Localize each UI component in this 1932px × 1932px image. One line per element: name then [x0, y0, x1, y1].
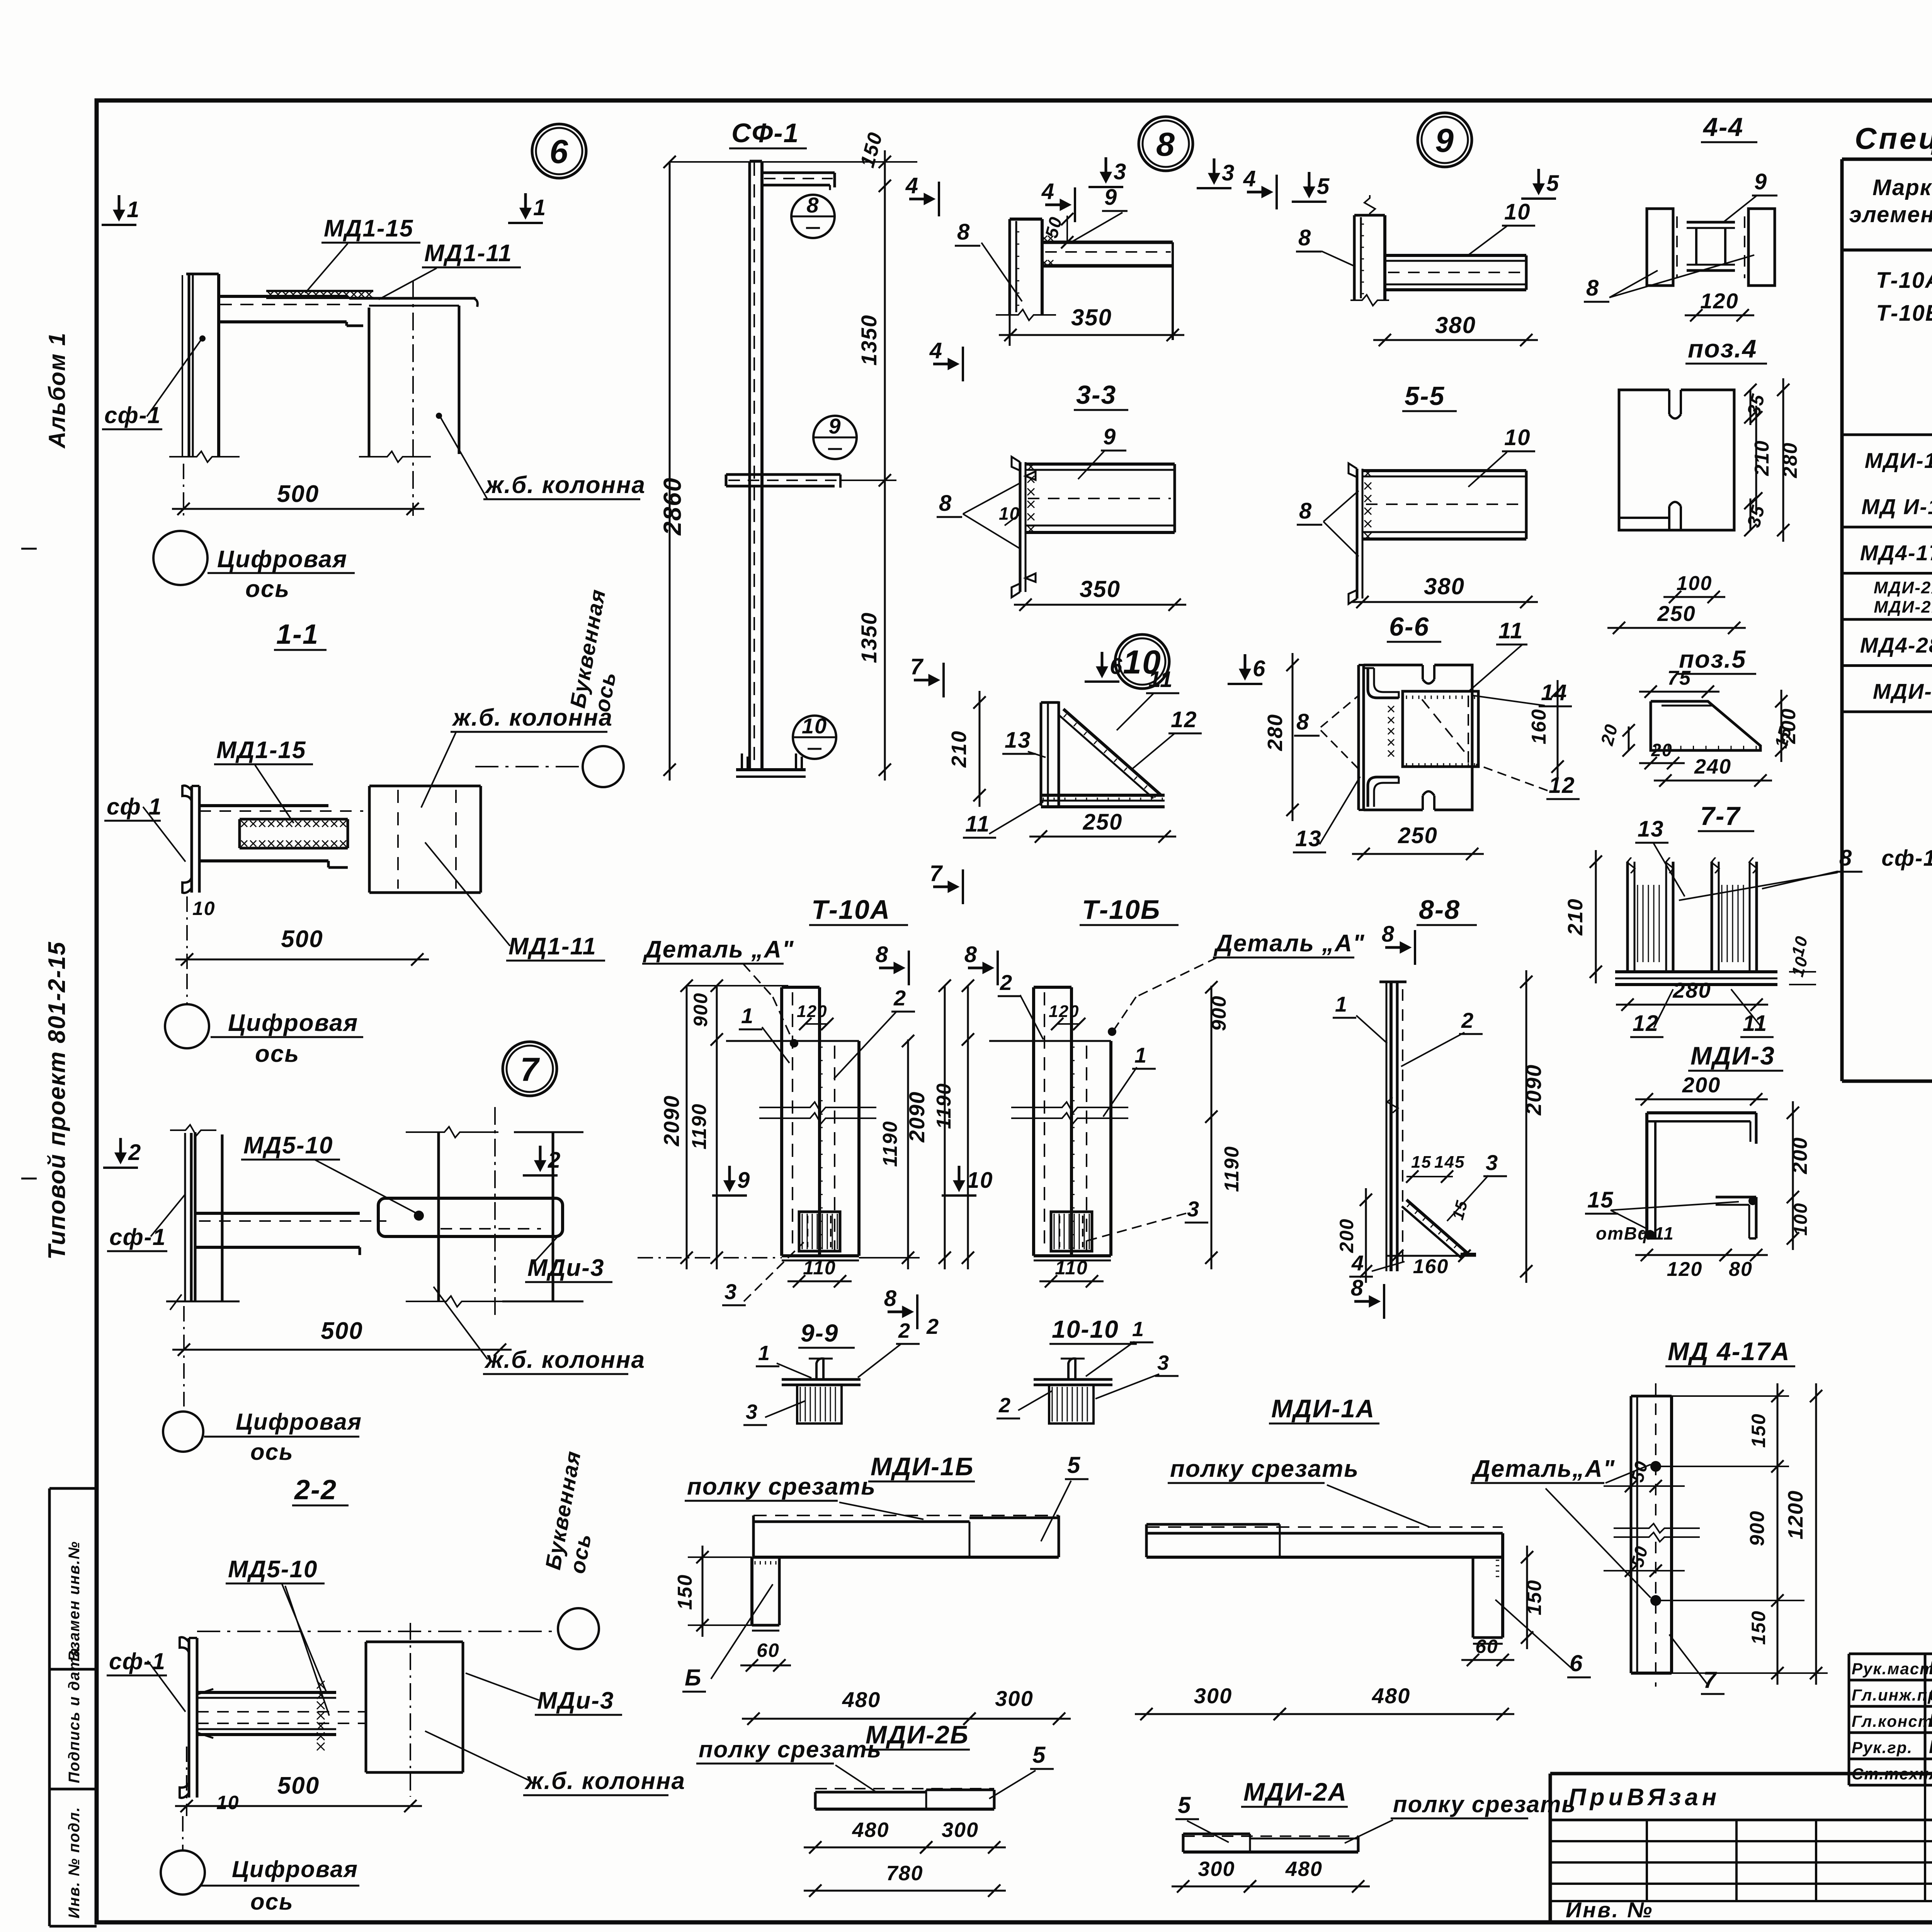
T-10B: dim 110: [1039, 1281, 1104, 1282]
6-6: top angle 8: [1368, 668, 1399, 698]
node 7: SF-1 wall: [184, 1133, 186, 1301]
svg-text:60: 60: [1475, 1636, 1498, 1657]
svg-text:ось: ось: [245, 576, 290, 602]
svg-text:3-3: 3-3: [1076, 380, 1116, 410]
svg-text:120: 120: [797, 1002, 827, 1021]
svg-text:3: 3: [1187, 1197, 1200, 1221]
svg-text:150: 150: [1748, 1610, 1769, 1645]
7-7: base plate: [1615, 970, 1777, 973]
svg-text:2: 2: [1000, 970, 1013, 995]
6-6: dims: [1292, 653, 1294, 821]
svg-text:сф-1: сф-1: [109, 1648, 166, 1674]
T-10A: column tall left leg: [780, 987, 783, 1256]
T-10B: section mark 8 top: [968, 967, 991, 969]
8-8: vertical member: [1386, 982, 1388, 1271]
svg-text:МД5-10: МД5-10: [243, 1132, 333, 1159]
node 8 marker circle: [1139, 117, 1193, 171]
svg-text:900: 900: [690, 992, 711, 1027]
svg-text:МДи-3: МДи-3: [537, 1687, 614, 1714]
10-10: plate with rib: [1034, 1378, 1112, 1381]
2-2: axis line to letter circle: [197, 1631, 558, 1632]
svg-text:4: 4: [929, 338, 943, 363]
section mark 4 right (node8 left): [1045, 204, 1068, 206]
svg-text:7: 7: [1703, 1667, 1717, 1693]
svg-text:Инв. № подл.: Инв. № подл.: [66, 1806, 83, 1918]
MD4-17A: axis line and holes: [1655, 1383, 1656, 1522]
svg-text:Рук.маст.: Рук.маст.: [1852, 1660, 1932, 1678]
svg-text:150: 150: [674, 1574, 696, 1610]
node 8: dim 350: [1009, 314, 1011, 346]
svg-text:отВф11: отВф11: [1596, 1223, 1674, 1243]
2-2: letter axis circle: [558, 1608, 599, 1649]
svg-text:ПриВЯзан: ПриВЯзан: [1569, 1784, 1720, 1811]
5-5: left flange with caps: [1356, 469, 1359, 599]
2-2: SF-1 angle post section: [180, 1637, 189, 1653]
svg-text:5: 5: [1546, 171, 1560, 196]
svg-text:Гл.констр: Гл.констр: [1852, 1712, 1932, 1730]
node 10: gusset triangle: [1063, 709, 1161, 795]
2-2: axis circle: [161, 1850, 205, 1895]
svg-text:1: 1: [1132, 1318, 1145, 1341]
svg-text:7: 7: [910, 654, 924, 679]
5-5: dim 380: [1351, 601, 1538, 603]
svg-text:9: 9: [737, 1168, 750, 1193]
node 10: dims: [979, 691, 981, 807]
svg-text:сф-1: сф-1: [1881, 846, 1932, 871]
T-10A: section mark 8 top: [879, 967, 902, 969]
svg-text:2: 2: [998, 1394, 1011, 1417]
svg-text:3: 3: [1486, 1150, 1498, 1175]
node 6 marker circle: [532, 124, 586, 178]
2-2: concrete column: [366, 1641, 463, 1643]
T-10A: right dim 1190: [907, 1039, 909, 1269]
svg-text:МД 4-17А: МД 4-17А: [1668, 1337, 1790, 1366]
svg-text:160: 160: [1528, 709, 1550, 745]
svg-text:Корнеев С.Н.: Корнеев С.Н.: [1929, 1711, 1932, 1731]
svg-text:Цифровая: Цифровая: [232, 1856, 358, 1882]
node 6: beam MD1-15: [219, 295, 348, 298]
MD4-17A: vertical bar: [1630, 1396, 1633, 1673]
4-4: middle channel: [1687, 221, 1735, 224]
MD4-17A: dim 50 lower: [1604, 1570, 1685, 1571]
node 9: beam: [1385, 254, 1526, 257]
svg-text:10: 10: [1504, 199, 1531, 224]
svg-text:80: 80: [1729, 1258, 1753, 1281]
T-10B: column short right leg: [1109, 1041, 1112, 1256]
node 8: weld combs: [1042, 236, 1047, 241]
specification table grid: [1842, 158, 1932, 161]
1-1: concrete column: [369, 785, 481, 787]
MDI-3: dims: [1792, 1101, 1794, 1250]
svg-text:780: 780: [886, 1862, 923, 1885]
section mark 1 left: [118, 195, 121, 218]
svg-text:9-9: 9-9: [801, 1319, 839, 1347]
node 7: MDI-3 bracket plan: [378, 1198, 563, 1236]
svg-text:1: 1: [741, 1003, 754, 1028]
svg-text:100: 100: [1791, 1202, 1811, 1236]
svg-text:300: 300: [942, 1818, 979, 1842]
MDI-2A: bar: [1183, 1835, 1358, 1837]
svg-text:900: 900: [1208, 995, 1230, 1031]
poz.4: right dims: [1750, 390, 1752, 425]
9-9: plate with rib: [782, 1378, 861, 1381]
svg-text:5: 5: [1317, 174, 1330, 199]
section mark 3 (between): [1213, 158, 1216, 182]
node 7: concrete column: [437, 1132, 440, 1301]
8-8: dims: [1526, 970, 1527, 1283]
section mark 4 lower left: [933, 363, 956, 366]
svg-text:МДИ-1Б: МДИ-1Б: [871, 1452, 974, 1481]
svg-text:ж.б. колонна: ж.б. колонна: [485, 472, 646, 498]
svg-text:9: 9: [1104, 185, 1117, 210]
MDI-1B: beam body: [753, 1515, 1059, 1516]
node 9: dim 380: [1373, 339, 1538, 341]
svg-text:480: 480: [1285, 1857, 1323, 1881]
svg-text:12: 12: [1549, 773, 1575, 798]
svg-text:Т-10Б: Т-10Б: [1876, 301, 1932, 326]
svg-text:2: 2: [926, 1314, 939, 1338]
svg-text:1200: 1200: [1784, 1490, 1807, 1539]
svg-text:350: 350: [1071, 304, 1112, 330]
svg-text:380: 380: [1424, 573, 1465, 599]
svg-text:2: 2: [128, 1140, 141, 1165]
svg-text:120: 120: [1049, 1002, 1079, 1021]
SF-1 elevation: left dim 2860: [669, 162, 671, 781]
1-1: MD1-15 hatched plate section: [240, 818, 348, 821]
poz.5: dims: [1781, 690, 1782, 762]
6-6: left plate 13: [1357, 665, 1360, 810]
svg-text:13: 13: [1295, 826, 1322, 851]
svg-text:8: 8: [1586, 276, 1599, 301]
svg-text:11: 11: [965, 811, 990, 837]
node 10: left plate: [1040, 702, 1043, 806]
svg-text:13: 13: [1638, 816, 1664, 842]
section mark 1 right: [524, 193, 527, 216]
svg-text:250: 250: [1657, 601, 1696, 626]
svg-text:элемента: элемента: [1849, 202, 1932, 227]
svg-text:1-1: 1-1: [276, 619, 319, 650]
poz.4: bottom dims: [1663, 596, 1725, 598]
MDI-3: corner angle piece poz 15: [1716, 1196, 1756, 1199]
svg-text:8: 8: [876, 942, 889, 967]
section mark 5 left: [1308, 172, 1311, 195]
MD4-17A: extension lines: [1656, 1395, 1789, 1397]
node 7: dim 500: [172, 1349, 512, 1351]
MDI-2B: bar: [815, 1788, 994, 1789]
svg-text:2-2: 2-2: [294, 1475, 337, 1505]
svg-text:300: 300: [1194, 1684, 1232, 1708]
8-8: bottom diagonal brace: [1406, 1200, 1468, 1254]
svg-text:120: 120: [1667, 1258, 1703, 1281]
10-10: lower box: [1049, 1385, 1094, 1423]
svg-text:900: 900: [1746, 1510, 1769, 1546]
svg-text:9: 9: [828, 414, 841, 438]
3-3: dim 350: [1014, 604, 1186, 606]
svg-text:Цифровая: Цифровая: [217, 546, 347, 573]
SF-1 elevation: node mark 8: [791, 195, 835, 238]
svg-text:Цифровая: Цифровая: [236, 1409, 362, 1435]
svg-text:3: 3: [746, 1400, 758, 1423]
6-6: notched plate poz4 side: [1364, 664, 1423, 667]
svg-text:8: 8: [1351, 1276, 1364, 1301]
MD4-17A: dim 50 upper: [1604, 1485, 1685, 1487]
svg-text:6: 6: [1253, 656, 1266, 681]
svg-text:Стуканова З.Г: Стуканова З.Г: [1929, 1684, 1932, 1705]
svg-text:6: 6: [1110, 654, 1123, 679]
svg-text:Деталь „А": Деталь „А": [1213, 930, 1365, 957]
svg-text:полку срезать: полку срезать: [699, 1736, 882, 1762]
svg-text:6: 6: [1570, 1650, 1583, 1676]
MDI-3: top dim 200: [1635, 1099, 1768, 1100]
poz.5: dim 75: [1639, 691, 1719, 693]
svg-text:Марка: Марка: [1872, 175, 1932, 200]
node 8: dim 50: [1066, 216, 1068, 243]
svg-text:10-10: 10-10: [1052, 1315, 1119, 1343]
node 9 marker circle: [1418, 113, 1472, 167]
MDI-2B: dims: [804, 1847, 938, 1849]
node 6: SF-1 column edge: [182, 275, 183, 457]
9-9: lower box: [797, 1385, 842, 1423]
1-1: beam section: [199, 804, 328, 807]
svg-text:Альбом 1: Альбом 1: [44, 332, 70, 449]
4-4: right plate: [1748, 209, 1775, 286]
svg-text:1190: 1190: [688, 1103, 711, 1150]
4-4: left plate: [1647, 209, 1673, 286]
svg-text:500: 500: [277, 1772, 320, 1799]
svg-text:1190: 1190: [1221, 1146, 1243, 1192]
5-5: beam body: [1362, 469, 1526, 472]
svg-text:Гл.инж.пр: Гл.инж.пр: [1852, 1686, 1932, 1704]
svg-text:МД1-11: МД1-11: [509, 933, 597, 960]
SF-1 elevation: middle bracket: [726, 473, 840, 476]
svg-text:280: 280: [1779, 442, 1801, 478]
left margin stamp column: [48, 1488, 51, 1926]
T-10A: dim 110: [787, 1281, 852, 1282]
svg-text:2090: 2090: [905, 1091, 929, 1143]
privyazan box: [1550, 1772, 1932, 1776]
svg-text:8: 8: [884, 1286, 897, 1311]
SF-1 elevation: main post: [748, 161, 751, 769]
svg-text:Рук.гр.: Рук.гр.: [1852, 1738, 1913, 1757]
svg-text:500: 500: [281, 926, 323, 952]
svg-text:Деталь „А": Деталь „А": [643, 936, 794, 963]
svg-text:480: 480: [852, 1818, 889, 1842]
svg-text:9: 9: [1435, 122, 1454, 159]
svg-text:11: 11: [1743, 1011, 1767, 1036]
svg-text:12: 12: [1171, 707, 1197, 732]
svg-text:МД1-15: МД1-15: [216, 737, 306, 764]
svg-text:1350: 1350: [857, 315, 881, 366]
svg-text:1190: 1190: [933, 1083, 955, 1129]
svg-text:1350: 1350: [857, 612, 881, 663]
svg-text:МД4-28А: МД4-28А: [1860, 633, 1932, 657]
svg-text:4: 4: [905, 173, 919, 198]
svg-text:3: 3: [1222, 160, 1235, 185]
svg-text:МДИ-2А: МДИ-2А: [1874, 578, 1932, 597]
section mark 2 left: [119, 1138, 122, 1161]
T-10B: bottom hatched box: [1051, 1212, 1092, 1251]
T-10A: section mark 8 bottom: [888, 1311, 911, 1313]
svg-text:6: 6: [549, 133, 569, 170]
svg-text:ось: ось: [250, 1889, 294, 1915]
node 7: axis circle: [163, 1412, 203, 1452]
svg-text:2: 2: [898, 1319, 911, 1342]
svg-text:4-4: 4-4: [1702, 112, 1743, 142]
T-10A: bottom cap: [782, 1254, 859, 1257]
svg-text:10: 10: [999, 503, 1020, 524]
svg-text:150: 150: [1523, 1580, 1546, 1616]
svg-text:300: 300: [1198, 1857, 1235, 1881]
SF-1 elevation: node mark 9: [813, 416, 857, 459]
node 7 marker circle: [503, 1042, 557, 1096]
svg-text:ж.б. колонна: ж.б. колонна: [524, 1768, 685, 1794]
T-10B: column tall left leg: [1032, 987, 1035, 1256]
svg-text:8: 8: [1382, 922, 1395, 947]
MD4-17A: right dim chain: [1777, 1383, 1779, 1685]
node 9: flange plate: [1354, 214, 1385, 217]
svg-text:5-5: 5-5: [1405, 381, 1445, 411]
7-7: right channel: [1711, 862, 1713, 972]
svg-text:МДи-3: МДи-3: [527, 1255, 604, 1281]
svg-text:5: 5: [1067, 1452, 1081, 1478]
svg-text:3: 3: [1114, 159, 1127, 184]
svg-text:9: 9: [1103, 424, 1116, 449]
section mark 4 (between): [1247, 191, 1270, 194]
svg-text:12: 12: [1633, 1011, 1659, 1036]
1-1: axis circle: [165, 1004, 209, 1048]
svg-text:1: 1: [758, 1342, 770, 1365]
node 7: beam: [195, 1212, 360, 1215]
svg-text:МДИ-3: МДИ-3: [1873, 679, 1932, 704]
fold marks left edge: [21, 548, 37, 550]
svg-text:250: 250: [1398, 823, 1438, 848]
svg-text:Костина и.с.: Костина и.с.: [1929, 1737, 1932, 1757]
svg-text:Т-10Б: Т-10Б: [1082, 895, 1161, 925]
MDI-3: frame: [1647, 1111, 1756, 1114]
4-4: dim 120: [1685, 315, 1754, 316]
svg-text:Цифровая: Цифровая: [228, 1010, 358, 1036]
poz.4: plate with notches: [1619, 390, 1734, 530]
svg-text:150: 150: [1748, 1413, 1769, 1447]
svg-text:Б: Б: [685, 1665, 702, 1690]
svg-text:8: 8: [957, 219, 970, 245]
svg-text:8: 8: [806, 193, 819, 217]
T-10A: bottom hatched box: [799, 1212, 840, 1251]
svg-text:1: 1: [127, 197, 140, 222]
svg-text:Деталь„А": Деталь„А": [1471, 1456, 1615, 1482]
svg-text:2860: 2860: [658, 477, 686, 536]
svg-text:ось: ось: [250, 1439, 294, 1465]
node 6: beam MD1-11: [349, 297, 476, 300]
svg-text:3: 3: [1157, 1351, 1170, 1374]
6-6: bottom angle 8: [1368, 777, 1399, 807]
svg-text:480: 480: [842, 1687, 881, 1712]
poz.5: plate: [1651, 701, 1760, 750]
node 10: base: [1041, 794, 1165, 797]
section mark 5 right: [1537, 169, 1540, 192]
svg-text:полку срезать: полку срезать: [687, 1473, 876, 1500]
svg-text:СпецификациЯ стали на один: СпецификациЯ стали на один Элемент: [1855, 121, 1932, 155]
1-1: SF-1 angle post section: [182, 786, 192, 801]
T-10A: section marks 9/10: [728, 1166, 731, 1189]
svg-text:8: 8: [939, 491, 952, 516]
section mark 4 right of SF-1: [909, 198, 932, 201]
svg-text:МДИ-2Б: МДИ-2Б: [1874, 598, 1932, 617]
svg-text:4: 4: [1041, 179, 1055, 204]
T-10A: column short right leg: [857, 1041, 861, 1256]
T-10B: break marks: [1011, 1102, 1128, 1113]
svg-text:200: 200: [1336, 1218, 1357, 1253]
svg-text:МД4-17А: МД4-17А: [1860, 541, 1932, 565]
1-1: letter axis circle: [583, 746, 624, 787]
svg-text:110: 110: [1055, 1257, 1088, 1279]
svg-text:Гущин В.Н.: Гущин В.Н.: [1929, 1658, 1932, 1679]
T-10A: break marks: [759, 1102, 876, 1113]
svg-text:МДИ-1А: МДИ-1А: [1271, 1394, 1375, 1423]
svg-text:210: 210: [1751, 440, 1773, 476]
svg-text:МД1-15: МД1-15: [324, 215, 414, 242]
section mark 3 down (node8 left): [1105, 157, 1107, 180]
MDI-1B: dims: [702, 1546, 704, 1637]
section mark 6 down right: [1244, 654, 1247, 677]
svg-text:МДИ-1А: МДИ-1А: [1865, 448, 1932, 473]
svg-text:500: 500: [277, 481, 319, 507]
svg-text:6-6: 6-6: [1389, 612, 1429, 641]
3-3: beam body: [1026, 463, 1175, 466]
svg-text:1: 1: [1335, 992, 1348, 1016]
svg-text:10: 10: [802, 714, 827, 738]
svg-text:210: 210: [1564, 898, 1587, 935]
svg-text:сф-1: сф-1: [104, 402, 161, 428]
8-8: section marks 8: [1385, 946, 1408, 949]
svg-text:полку срезать: полку срезать: [1393, 1791, 1576, 1817]
svg-text:Т-10А: Т-10А: [811, 895, 890, 925]
svg-text:4: 4: [1243, 166, 1257, 191]
6-6: middle hatched box 12: [1403, 691, 1478, 767]
svg-text:7: 7: [520, 1051, 540, 1088]
section mark 2 right: [539, 1146, 542, 1169]
SF-1 elevation: node mark 10: [793, 716, 836, 759]
svg-text:10: 10: [216, 1792, 240, 1813]
MDI-1B: left leg: [750, 1557, 753, 1625]
svg-text:МД И-1Б: МД И-1Б: [1861, 495, 1932, 519]
SF-1 elevation: base foot: [736, 768, 806, 771]
svg-text:СФ-1: СФ-1: [731, 118, 799, 148]
svg-text:75: 75: [1667, 667, 1691, 689]
svg-text:8: 8: [1839, 845, 1852, 871]
svg-text:1: 1: [1134, 1043, 1147, 1067]
MDI-1A: dims: [1526, 1546, 1528, 1649]
T-10B: right dims: [1211, 986, 1213, 1269]
svg-text:МДИ-2А: МДИ-2А: [1243, 1777, 1347, 1806]
svg-text:ж.б. колонна: ж.б. колонна: [452, 704, 613, 731]
svg-text:13: 13: [1005, 728, 1031, 753]
section mark 6 down left: [1101, 652, 1104, 675]
MDI-1A: beam body: [1146, 1526, 1503, 1528]
MDI-2A: dims: [1172, 1886, 1262, 1888]
svg-text:15: 15: [1411, 1153, 1432, 1172]
svg-text:Взамен инв.№: Взамен инв.№: [66, 1541, 83, 1662]
svg-text:8-8: 8-8: [1419, 895, 1460, 925]
svg-text:380: 380: [1435, 312, 1476, 338]
3-3: left flange with caps: [1019, 462, 1022, 592]
svg-text:15: 15: [1587, 1187, 1614, 1213]
svg-text:11: 11: [1148, 667, 1173, 692]
svg-text:5: 5: [1178, 1792, 1191, 1818]
node 8: beam: [1042, 241, 1173, 244]
section mark 7 lower: [933, 886, 956, 888]
svg-text:2: 2: [548, 1148, 561, 1173]
